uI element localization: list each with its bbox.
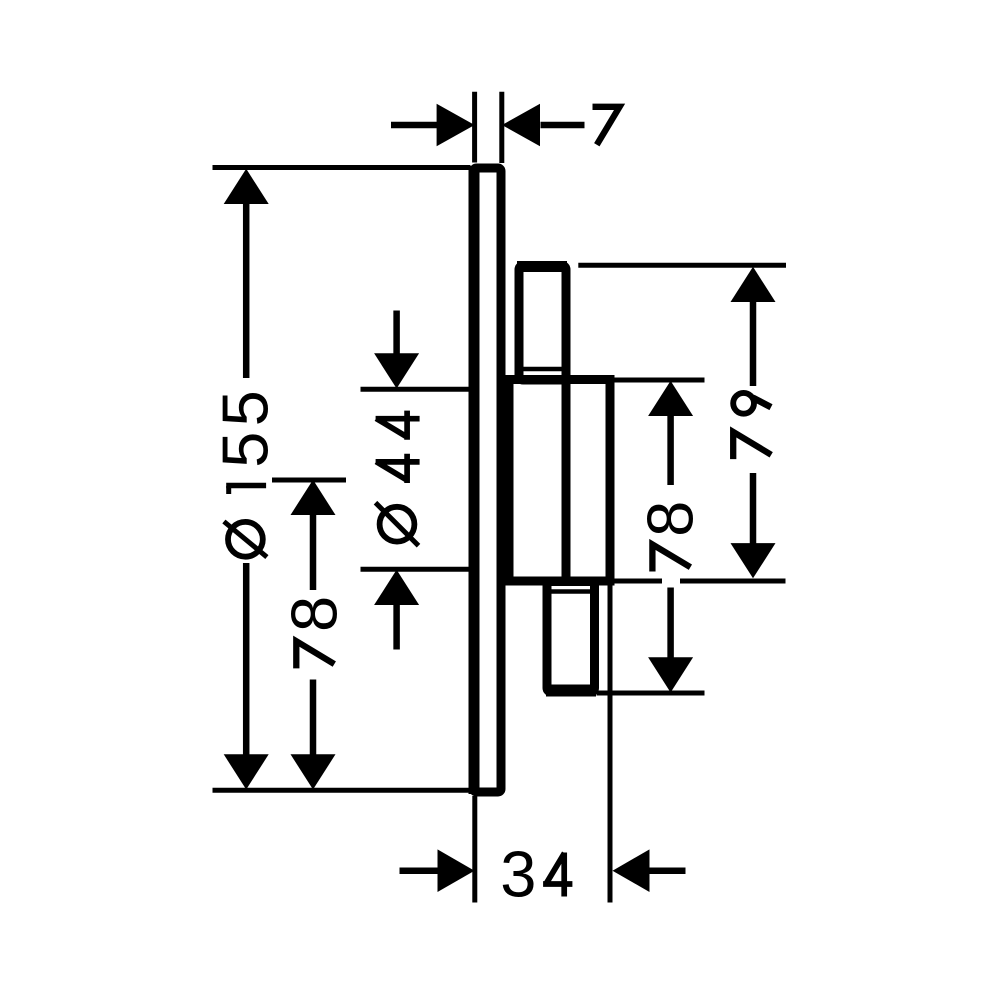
dim 34: left line + arrow (400, 867, 441, 874)
dim 78 mid: bottom leader (597, 691, 705, 696)
dim 78 mid: up arrow (648, 381, 693, 416)
dim 44: line below (393, 603, 400, 650)
dim 78 left: text (296, 641, 334, 668)
dim 155: bottom leader (213, 788, 474, 793)
dim 155: text (228, 522, 263, 557)
dim 79: bottom leader seg2 (680, 579, 786, 584)
dim 7: text (593, 107, 620, 145)
dim 79: top leader (578, 263, 786, 268)
dim 44: up arrow (outside, below) (374, 570, 419, 605)
upper knob top cap thickening (517, 261, 567, 272)
dim 44: down arrow (outside, above) (374, 353, 419, 388)
dim 7: extension line B (499, 92, 504, 163)
lower knob (547, 582, 595, 693)
dim 44: bottom leader (361, 567, 471, 572)
dim 79: up arrow (731, 267, 776, 302)
dim 78 left: top leader (272, 478, 346, 483)
upper knob (519, 266, 566, 381)
dim 78 mid: down arrow (648, 657, 693, 692)
dim 78 left: line upper (310, 513, 317, 590)
svg-text:5: 5 (208, 390, 281, 426)
svg-text:8: 8 (634, 501, 707, 537)
dim 44: line above (393, 311, 400, 357)
dim 7: right line + arrow (541, 122, 585, 129)
block inner vertical line (562, 375, 571, 585)
dim 78 left: down arrow (291, 754, 336, 789)
dim 79: down arrow (731, 543, 776, 578)
dim 44: text (380, 507, 415, 542)
dim 79: text (733, 432, 771, 459)
dim 34: extension line left (472, 796, 477, 903)
central block (509, 380, 610, 582)
dim 155: up arrow (224, 169, 269, 204)
lower knob inner line (547, 589, 595, 594)
dim 78 mid: line lower (667, 588, 674, 660)
dim 78 left: line lower (310, 680, 317, 759)
dim 79: line lower (750, 473, 757, 547)
dim 155: down arrow (224, 754, 269, 789)
svg-text:3: 3 (500, 838, 536, 911)
dim 44: top leader (361, 387, 471, 392)
dim 78 mid: text (652, 544, 690, 571)
svg-text:8: 8 (278, 596, 351, 632)
upper knob inner line (517, 367, 562, 372)
dim 34: right line + arrow (647, 867, 686, 874)
dim 79: line upper (750, 300, 757, 386)
dim 155: line upper (243, 200, 250, 378)
plate (escutcheon side view) (474, 168, 502, 792)
dim 34: extension line right (608, 585, 613, 903)
dim 7: extension line A (472, 92, 477, 163)
plate left bar thickening (469, 166, 480, 794)
dim 78 mid: line upper (667, 415, 674, 486)
dim 79: bottom leader seg1 (615, 579, 663, 584)
dim 155: top leader (213, 165, 471, 170)
dim 7: left line + arrow (391, 122, 437, 129)
dim 155: line lower (243, 563, 250, 758)
svg-text:5: 5 (208, 432, 281, 468)
lower knob bottom cap thickening (546, 685, 596, 697)
dim 78 left: up arrow (291, 480, 336, 515)
dim 78 mid: top leader (614, 378, 705, 383)
